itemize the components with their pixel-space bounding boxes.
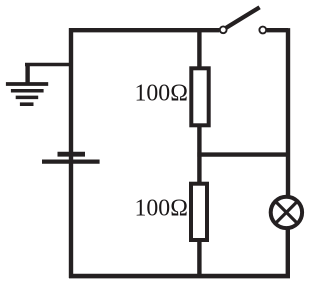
svg-text:100Ω: 100Ω [135, 196, 188, 222]
svg-text:100Ω: 100Ω [135, 81, 188, 107]
